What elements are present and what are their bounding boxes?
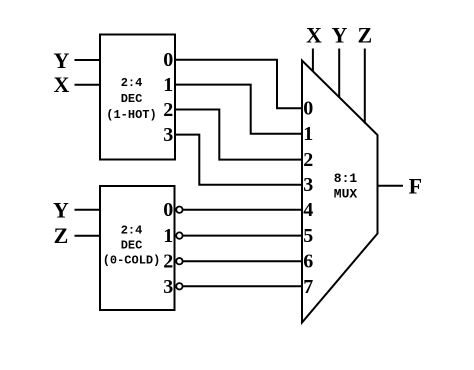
svg-text:3: 3 <box>163 276 173 298</box>
svg-text:2: 2 <box>163 251 173 273</box>
svg-text:6: 6 <box>303 251 313 273</box>
wire select Y into U3 <box>338 49 340 98</box>
svg-text:4: 4 <box>303 199 313 221</box>
svg-text:3: 3 <box>163 124 173 146</box>
svg-text:1: 1 <box>163 74 173 96</box>
U2 output 2 inversion bubble <box>176 258 182 264</box>
svg-text:X: X <box>306 23 322 48</box>
wire select X into U3 <box>312 49 314 72</box>
wire U1 pin 3 to U3 input 3 <box>176 135 303 185</box>
svg-text:Y: Y <box>332 23 348 48</box>
wire net Y to U1 input <box>75 59 101 61</box>
svg-text:F: F <box>409 174 422 199</box>
svg-text:1: 1 <box>303 123 313 145</box>
svg-text:8:1: 8:1 <box>334 171 358 186</box>
wire net Z to U2 input <box>75 235 101 237</box>
wire net X to U1 input <box>75 84 101 86</box>
wire U2 pin 2 to U3 input 6 <box>183 260 302 262</box>
wire U1 pin 2 to U3 input 2 <box>176 110 303 160</box>
svg-text:0: 0 <box>163 49 173 71</box>
wire select Z into U3 <box>364 49 366 124</box>
svg-text:2: 2 <box>163 99 173 121</box>
wire U3 output to F <box>378 185 404 187</box>
svg-text:2: 2 <box>303 149 313 171</box>
svg-text:Z: Z <box>54 223 69 248</box>
wire U2 pin 1 to U3 input 5 <box>183 235 302 237</box>
svg-text:7: 7 <box>303 276 313 298</box>
U2 output 0 inversion bubble <box>176 207 182 213</box>
wire U2 pin 3 to U3 input 7 <box>183 285 302 287</box>
svg-text:3: 3 <box>303 174 313 196</box>
U2 output 1 inversion bubble <box>176 232 182 238</box>
wire U1 pin 1 to U3 input 1 <box>176 85 303 134</box>
U2 output 3 inversion bubble <box>176 283 182 289</box>
svg-text:MUX: MUX <box>334 187 358 202</box>
svg-text:0: 0 <box>303 98 313 120</box>
wire net Y to U2 input <box>75 209 101 211</box>
wire U2 pin 0 to U3 input 4 <box>183 209 302 211</box>
svg-text:Y: Y <box>54 48 70 73</box>
svg-text:Y: Y <box>53 197 69 222</box>
svg-text:DEC: DEC <box>121 92 143 106</box>
svg-text:5: 5 <box>303 225 313 247</box>
wire U1 pin 0 to U3 input 0 <box>176 60 303 108</box>
svg-text:DEC: DEC <box>121 239 143 253</box>
decoder U2 box (2:4 DEC 0-COLD) <box>100 186 175 310</box>
svg-text:(0-COLD): (0-COLD) <box>103 254 161 268</box>
svg-text:X: X <box>54 72 70 97</box>
svg-text:Z: Z <box>357 23 372 48</box>
svg-text:0: 0 <box>163 199 173 221</box>
svg-text:2:4: 2:4 <box>121 224 143 238</box>
svg-text:(1-HOT): (1-HOT) <box>106 108 156 122</box>
svg-text:2:4: 2:4 <box>121 76 143 90</box>
multiplexer U3 body (8:1 MUX trapezoid) <box>302 61 378 323</box>
decoder U1 box (2:4 DEC 1-HOT) <box>100 35 175 160</box>
svg-text:1: 1 <box>163 225 173 247</box>
